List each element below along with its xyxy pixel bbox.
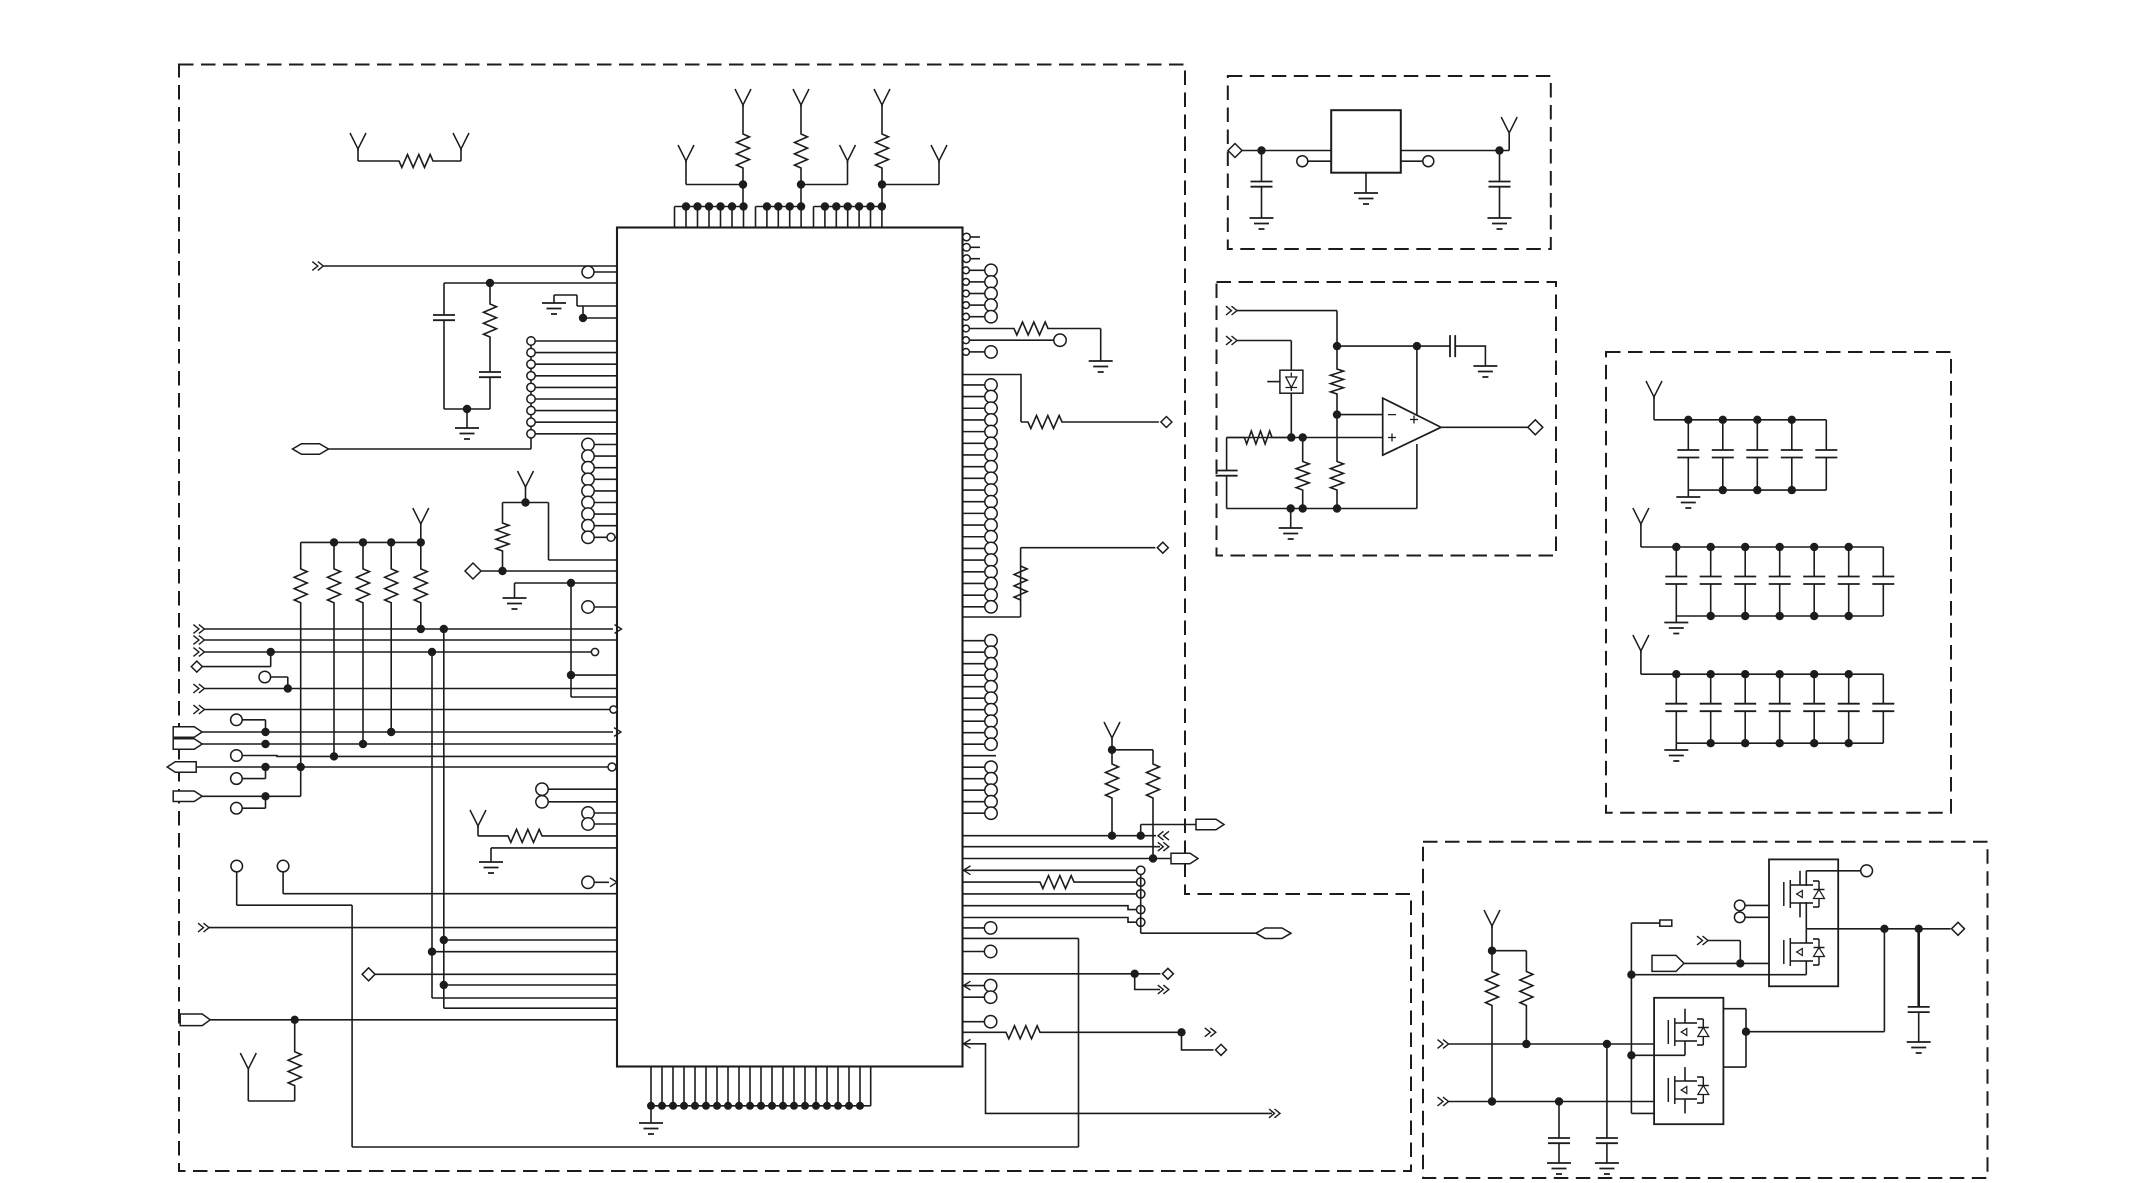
- bus vertical V1: [443, 629, 445, 1008]
- divider resistor R21: [1331, 342, 1344, 419]
- main board dashed boundary: [179, 65, 1411, 1172]
- test point rectangle: [1631, 920, 1671, 926]
- tag line INT: [173, 791, 301, 802]
- IC U1 ground pins bus to ground: [639, 1067, 871, 1135]
- MOSFET Q3 body diode: [1631, 1019, 1708, 1055]
- control bus line 2: [193, 636, 617, 645]
- VDD series resistor R12: [470, 810, 617, 842]
- gate pull-up VDD R25 R26: [1484, 910, 1533, 1106]
- input chevron 2: [1226, 336, 1291, 370]
- pin circle right P20: [963, 1016, 997, 1028]
- inner rail package 2: [1691, 1009, 1746, 1067]
- line to chevron-in: [963, 819, 1225, 840]
- pin small circle net 2: [963, 890, 1145, 898]
- op-amp U3: [1383, 398, 1441, 455]
- regulator enable pin circle: [1297, 156, 1331, 167]
- diamond port line: [362, 968, 617, 981]
- decoupling capacitor row C19-C25: [1633, 635, 1894, 761]
- pin circle right P15: [963, 346, 998, 358]
- snubber capacitor C27: [1595, 1044, 1619, 1174]
- MOSFET Q1 body diode: [1806, 871, 1824, 929]
- RC filter network R5 C1 C2 to ground: [433, 279, 617, 439]
- pin circle P9: [582, 807, 617, 819]
- VDD supply symbol group 1: [678, 145, 743, 185]
- output capacitor C28: [1907, 929, 1931, 1053]
- pin circle P11 long net: [231, 860, 1079, 1147]
- op-amp output diamond: [1441, 420, 1543, 435]
- pin circle pair P7: [536, 796, 617, 808]
- half-bridge package U4 box: [1769, 859, 1838, 986]
- sense line 3: [440, 981, 617, 989]
- amplifier section dashed box: [1217, 282, 1557, 556]
- MOSFET Q2 low-side: [1784, 938, 1813, 966]
- gate drive line A: [1438, 1040, 1669, 1049]
- compensation capacitor C5: [1337, 335, 1497, 377]
- drain output circle: [1806, 865, 1872, 877]
- pin small circle net 4: [963, 918, 1145, 927]
- VDD divider R17 R18: [1104, 722, 1160, 859]
- sense line 2: [428, 948, 617, 956]
- pin circle right P19: [963, 991, 997, 1003]
- ground pin strap: [479, 848, 617, 873]
- pull-up resistor R3 on VDD rail: [874, 89, 890, 207]
- pin circle P13 with arrow: [582, 876, 617, 888]
- output junction wire: [1742, 1028, 1885, 1036]
- R11 vertical: [420, 620, 422, 629]
- pin circle right P17: [963, 945, 997, 957]
- pin small circle net 3: [963, 905, 1145, 913]
- Q2 source out wire: [1631, 974, 1806, 976]
- pin circles right zone F: [963, 635, 998, 820]
- mid node vertical: [1627, 923, 1691, 1113]
- reset net diamond port: [465, 563, 617, 579]
- pin circles right zone B: [963, 264, 998, 323]
- filter capacitor C6: [1216, 438, 1238, 509]
- pin circle right P18: [964, 979, 997, 991]
- control bus line 1: [193, 625, 621, 634]
- input capacitor C3: [1250, 151, 1274, 230]
- VDD supply symbol group 3: [882, 145, 947, 185]
- pin circle P8 net: [231, 796, 266, 814]
- R10 vertical: [390, 620, 392, 732]
- pin circle right P16: [963, 922, 997, 934]
- V1 turn to IC: [444, 1007, 617, 1009]
- decoupling caps dashed box: [1606, 352, 1951, 813]
- regulator sense pin circle: [1401, 156, 1434, 167]
- divider resistor R24: [1331, 415, 1344, 513]
- VDD supply symbol group 2: [801, 145, 856, 185]
- tag line RX: [173, 739, 617, 750]
- decoupling capacitor row C7-C11: [1646, 381, 1837, 508]
- regulator gnd pin: [1354, 173, 1378, 204]
- IC U1 main controller body: [617, 228, 963, 1067]
- ground strap net on U1 left pins: [542, 295, 617, 322]
- IC U1 top power pins bus: [675, 202, 887, 227]
- wire net CLKIN from left header: [312, 262, 617, 271]
- resistor R14 to ground: [963, 322, 1113, 372]
- tag line SCL: [167, 762, 616, 773]
- line to tag: [963, 853, 1199, 864]
- tag BOOT with pulldown R13: [180, 1014, 617, 1101]
- inverting input wire: [1337, 414, 1383, 416]
- MOSFET Q2 body diode: [1806, 929, 1824, 975]
- V2 turn to IC: [432, 997, 617, 999]
- opamp supply wire: [1416, 346, 1418, 415]
- address bus A0-A8 header tag and pins: [293, 336, 618, 454]
- top-left resistor R4 between supplies: [350, 133, 469, 168]
- small stub pins top right: [963, 233, 980, 262]
- gate chevron for Q2: [1697, 936, 1740, 963]
- pull-up resistor R1 on VDD rail: [735, 89, 751, 207]
- long feedback line to chevron: [964, 1039, 1281, 1117]
- R9 vertical: [362, 620, 364, 744]
- pin circle P1: [582, 266, 617, 278]
- status line to diamond and chevron: [963, 968, 1174, 994]
- gate tag for Q2: [1652, 955, 1784, 971]
- pin circle P3 feeding strobe: [259, 671, 288, 688]
- R7 vertical to data line: [297, 620, 305, 796]
- snubber capacitor C26: [1547, 1102, 1571, 1175]
- ground return with sense taps: [503, 579, 618, 697]
- line SDA with circle: [231, 750, 617, 762]
- power stage dashed box: [1423, 842, 1988, 1178]
- series resistor R15 to diamond port: [963, 375, 1172, 429]
- MOSFET Q1 high-side: [1784, 871, 1813, 918]
- phase rail: [1806, 922, 1964, 935]
- sense line 1: [440, 936, 617, 944]
- phase to output junction: [1883, 929, 1885, 1032]
- VIN diamond port: [1228, 144, 1331, 158]
- output capacitor C4: [1488, 151, 1512, 230]
- regulator U2 body: [1331, 110, 1401, 173]
- pin circle P4 net: [231, 714, 266, 732]
- data bus pin circles D0-D8: [582, 438, 617, 543]
- enable line: [198, 923, 617, 932]
- line chevron-out: [963, 842, 1169, 851]
- control bus line 3: [193, 648, 598, 657]
- pull-down resistor bank R7-R11: [294, 508, 429, 620]
- pin circle right P14: [963, 334, 1067, 346]
- input chevron 1: [1226, 306, 1337, 346]
- input resistor R22: [1227, 431, 1383, 444]
- pin circles right zone E: [963, 379, 998, 613]
- series resistor R19: [963, 876, 1145, 889]
- MOSFET Q3 high-side: [1668, 1009, 1697, 1056]
- bus vertical V2: [431, 652, 433, 998]
- half-bridge package U5 box: [1654, 998, 1723, 1124]
- zener diode D1 in box: [1267, 370, 1303, 393]
- MOSFET Q4 low-side: [1668, 1067, 1697, 1113]
- strobe line: [193, 684, 617, 693]
- pin circle P5 net: [231, 767, 266, 784]
- pull-up resistor R2 on VDD rail: [793, 89, 809, 207]
- zener output node: [1287, 393, 1295, 441]
- data line with circle end: [193, 705, 617, 714]
- bottom rail and ground: [1227, 444, 1417, 539]
- drive circles Q1 source: [1734, 912, 1806, 923]
- MOSFET Q4 body diode: [1697, 1077, 1709, 1103]
- R8 vertical: [333, 620, 335, 756]
- regulator section dashed box: [1228, 76, 1551, 249]
- pin small circle net 1: [964, 866, 1145, 875]
- pull-up resistor R6 on reset line: [496, 471, 617, 575]
- diamond port line joining bus 3: [191, 652, 270, 672]
- pin circle P10: [582, 818, 617, 830]
- drive circles Q1: [1734, 900, 1783, 911]
- gate drive line B: [1438, 1097, 1669, 1106]
- series resistor R16 to diamond port 2: [963, 542, 1169, 617]
- tag line TX: [173, 727, 621, 738]
- decoupling capacitor row C12-C18: [1633, 508, 1894, 634]
- divider resistor R23: [1296, 438, 1309, 513]
- VOUT net to VDD: [1401, 117, 1517, 155]
- series resistor R20 to ports: [963, 1026, 1227, 1056]
- pin circle P12 net: [277, 860, 617, 893]
- pin circle pair P6: [536, 783, 617, 795]
- pin circle P2: [582, 601, 617, 613]
- small circle column to hex tag: [1141, 875, 1291, 939]
